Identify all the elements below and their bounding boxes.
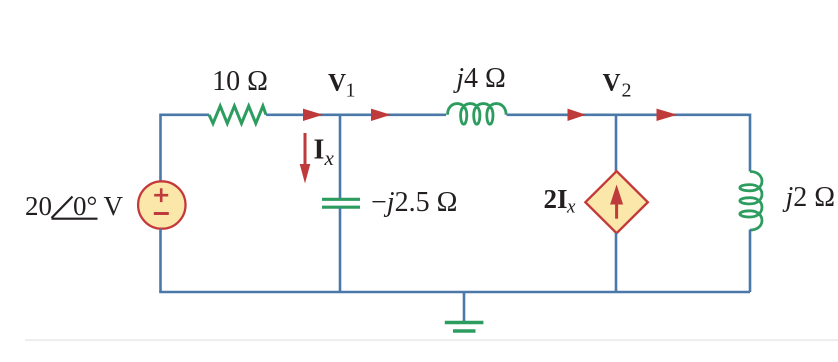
svg-text:x: x <box>324 146 335 170</box>
dependent source arrow <box>610 185 623 219</box>
current arrow into node V1 <box>303 109 323 121</box>
svg-text:j4 Ω: j4 Ω <box>453 63 506 94</box>
current Ix arrow <box>300 133 311 184</box>
capacitor -j2.5 ohm <box>322 199 360 207</box>
svg-text:0° V: 0° V <box>73 191 124 221</box>
svg-text:10 Ω: 10 Ω <box>212 66 268 97</box>
svg-text:x: x <box>566 197 576 218</box>
inductor j4 ohm <box>448 104 507 125</box>
svg-text:2I: 2I <box>544 184 568 214</box>
voltage source label 20 angle 0 V <box>25 191 124 221</box>
dependent current source 2Ix diamond <box>585 171 647 233</box>
svg-text:−j2.5 Ω: −j2.5 Ω <box>371 187 457 218</box>
voltage source plus sign <box>154 188 168 202</box>
wire node V1 down to capacitor <box>339 115 342 199</box>
ground <box>445 292 484 331</box>
svg-text:V: V <box>328 70 346 97</box>
svg-text:20: 20 <box>25 191 52 221</box>
current arrow out of node V2 <box>657 109 678 121</box>
svg-text:V: V <box>603 70 621 97</box>
voltage source minus sign <box>154 212 169 215</box>
bottom wire <box>159 291 750 294</box>
wire capacitor to bottom <box>339 208 342 293</box>
svg-text:1: 1 <box>346 80 356 102</box>
wire top segment source-to-resistor <box>161 115 210 182</box>
svg-text:I: I <box>314 135 325 166</box>
resistor 10 ohm <box>209 106 266 123</box>
inductor j2 ohm <box>740 172 762 231</box>
current arrow into node V2 <box>568 109 587 121</box>
wire dependent source to bottom <box>615 233 618 292</box>
wire right side below inductor <box>749 230 752 292</box>
svg-text:2: 2 <box>622 80 632 102</box>
page rule line <box>25 339 838 341</box>
wire source to bottom-left corner <box>159 229 162 292</box>
current arrow out of node V1 <box>371 109 391 121</box>
wire resistor to inductor through node V1 <box>266 114 446 117</box>
svg-text:j2 Ω: j2 Ω <box>783 182 836 213</box>
voltage source 20 angle 0 V <box>138 181 185 228</box>
wire inductor to right corner through node V2 <box>507 115 750 172</box>
wire node V2 down to dependent source <box>615 115 618 172</box>
